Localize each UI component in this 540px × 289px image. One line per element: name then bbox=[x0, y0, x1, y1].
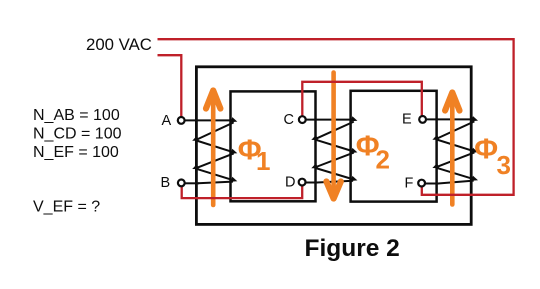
core window 2 (between center and right legs) bbox=[351, 91, 437, 202]
core window 1 (between left and center legs) bbox=[231, 91, 316, 201]
winding A-B turn 1 (rear) bbox=[197, 122, 234, 139]
wire terminal C to terminal E bbox=[302, 82, 422, 117]
winding A-B turn 2 (front) bbox=[196, 169, 232, 180]
winding C-D turn 2 (front) bbox=[316, 168, 353, 179]
svg-text:2: 2 bbox=[376, 145, 390, 175]
svg-text:Φ: Φ bbox=[474, 133, 498, 165]
winding C-D turn 2 (rear) bbox=[316, 153, 354, 167]
svg-text:E: E bbox=[402, 112, 412, 128]
svg-text:A: A bbox=[162, 113, 172, 129]
svg-text:3: 3 bbox=[497, 150, 511, 180]
svg-text:C: C bbox=[284, 112, 294, 128]
winding E-F turn 2 (rear) bbox=[437, 152, 474, 166]
terminal A bbox=[178, 117, 185, 124]
winding E-F turn 1 (front) bbox=[437, 140, 473, 151]
terminal C bbox=[299, 116, 306, 123]
terminal F bbox=[418, 180, 425, 187]
flux arrow PHI1 (up, left leg) bbox=[211, 94, 216, 206]
svg-text:N_AB = 100: N_AB = 100 bbox=[33, 107, 120, 124]
core outer limb (three-leg magnetic core outline) bbox=[196, 67, 471, 225]
wire 200 VAC return: source to terminal A bbox=[158, 55, 182, 118]
winding C-D bottom return bbox=[317, 181, 353, 183]
svg-text:Figure 2: Figure 2 bbox=[305, 235, 400, 262]
wire A-B bottom lead from terminal bbox=[184, 182, 199, 184]
winding E-F bottom return bbox=[438, 181, 474, 184]
wire E-F top lead from terminal bbox=[425, 118, 472, 120]
wire C-D bottom lead from terminal bbox=[305, 182, 318, 184]
wire A-B top lead from terminal bbox=[184, 119, 232, 121]
winding A-B turn 2 (rear) bbox=[197, 153, 234, 167]
terminal D bbox=[299, 179, 306, 186]
svg-text:N_EF = 100: N_EF = 100 bbox=[33, 144, 119, 161]
winding C-D turn 1 (rear) bbox=[316, 122, 354, 139]
terminal B bbox=[178, 180, 185, 187]
winding E-F turn 2 (front) bbox=[437, 168, 473, 179]
wire C-D top lead from terminal bbox=[305, 119, 352, 121]
wire terminal B to terminal D bbox=[182, 185, 303, 198]
flux arrow PHI3 (up, right leg) bbox=[450, 96, 455, 205]
svg-text:D: D bbox=[285, 174, 295, 190]
svg-text:F: F bbox=[405, 175, 414, 191]
winding E-F turn 1 (rear) bbox=[437, 121, 474, 138]
wire E-F bottom lead from terminal bbox=[424, 183, 439, 185]
winding A-B turn 1 (front) bbox=[196, 141, 232, 152]
winding C-D turn 1 (front) bbox=[316, 140, 353, 151]
flux arrow PHI2 (down, center leg) bbox=[331, 73, 336, 196]
svg-text:N_CD = 100: N_CD = 100 bbox=[33, 126, 122, 143]
winding A-B bottom return bbox=[198, 182, 233, 184]
svg-text:200 VAC: 200 VAC bbox=[86, 35, 152, 54]
svg-text:B: B bbox=[161, 175, 171, 191]
wire 200 VAC hot: source to right side bbox=[158, 39, 514, 195]
terminal E bbox=[419, 116, 426, 123]
svg-text:1: 1 bbox=[256, 146, 270, 176]
svg-text:V_EF = ?: V_EF = ? bbox=[33, 198, 100, 215]
